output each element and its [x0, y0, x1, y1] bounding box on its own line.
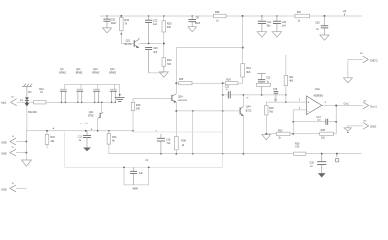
svg-text:R18: R18	[269, 107, 274, 110]
wire gate chain	[65, 83, 120, 85]
node junction	[242, 47, 244, 49]
svg-text:Out 1: Out 1	[370, 104, 377, 108]
svg-text:Q12: Q12	[93, 68, 98, 71]
svg-text:4k99: 4k99	[132, 188, 138, 191]
resistor R40	[256, 83, 270, 94]
ground	[188, 27, 197, 32]
svg-text:B79C: B79C	[88, 116, 94, 118]
svg-text:R33: R33	[50, 136, 55, 139]
svg-text:BF862: BF862	[109, 73, 116, 75]
resistor R33b	[45, 131, 55, 149]
svg-text:R32: R32	[124, 19, 129, 22]
wire base bus	[176, 110, 240, 112]
capacitor C25	[315, 15, 328, 35]
ground	[257, 32, 266, 37]
svg-text:C25: C25	[315, 21, 320, 24]
svg-text:Q24: Q24	[178, 95, 183, 98]
capacitor C22	[145, 16, 158, 44]
ground	[159, 72, 168, 77]
ground	[320, 35, 329, 40]
svg-text:GND: GND	[1, 189, 7, 192]
svg-text:R34: R34	[112, 136, 117, 139]
resistor R46	[131, 98, 141, 131]
transistor Q41	[88, 101, 103, 130]
op-amp U1A	[299, 87, 327, 115]
svg-text:Q41: Q41	[89, 111, 94, 114]
svg-text:R35: R35	[179, 79, 184, 81]
node A	[53, 127, 55, 130]
capacitor C16	[155, 130, 171, 154]
capacitor C15	[273, 16, 287, 31]
svg-text:+: +	[307, 101, 309, 105]
wire feedback upper	[292, 121, 337, 123]
capacitor C18	[273, 89, 278, 102]
svg-text:C23: C23	[225, 86, 230, 88]
svg-text:Q44: Q44	[246, 106, 251, 109]
svg-text:R33: R33	[167, 22, 172, 25]
svg-text:C33: C33	[266, 78, 271, 80]
connector Inp1	[1, 97, 17, 106]
wire bottom bus A	[26, 130, 133, 132]
transistor Q13	[109, 68, 116, 103]
wire	[17, 100, 34, 102]
ground	[272, 32, 281, 37]
resistor R11	[284, 55, 294, 103]
svg-text:R39: R39	[226, 79, 231, 81]
resistor R32	[120, 15, 130, 43]
svg-text:R46: R46	[136, 104, 141, 107]
svg-text:BF861: BF861	[59, 73, 66, 75]
connector GND 16	[1, 183, 27, 192]
wire top supply rail	[100, 15, 362, 17]
ground	[21, 160, 31, 166]
power flag +9	[343, 9, 347, 16]
svg-text:U1A: U1A	[315, 87, 320, 91]
svg-text:240: 240	[136, 108, 141, 111]
transistor Q4	[59, 68, 66, 103]
label 4k99	[132, 188, 138, 191]
svg-text:C18: C18	[273, 89, 278, 91]
svg-text:3k3: 3k3	[246, 71, 251, 74]
connector GND output	[348, 121, 376, 130]
resistor R30	[294, 142, 306, 155]
component T1	[336, 154, 339, 162]
svg-text:7k5: 7k5	[167, 63, 172, 66]
capacitor C31	[103, 16, 116, 28]
connector GND 15	[1, 147, 27, 156]
wire	[335, 106, 337, 134]
svg-text:Q21: Q21	[126, 39, 131, 42]
node B	[91, 129, 93, 131]
transistor Q44	[240, 97, 252, 116]
svg-text:R26: R26	[215, 11, 220, 14]
wire output	[322, 103, 363, 107]
svg-text:R27: R27	[297, 11, 302, 14]
svg-text:C12: C12	[78, 137, 83, 139]
svg-text:1uF: 1uF	[139, 173, 144, 175]
resistor R39	[225, 79, 238, 84]
ground	[344, 126, 351, 133]
resistor R35	[179, 79, 192, 85]
capacitor C14	[258, 16, 272, 31]
svg-text:56pF: 56pF	[195, 23, 201, 25]
svg-text:C13: C13	[316, 117, 321, 119]
wire noninverting input	[266, 101, 306, 103]
resistor R31	[241, 64, 252, 83]
transistor Q24	[168, 94, 188, 103]
wire node riser	[192, 111, 194, 155]
svg-text:C20: C20	[153, 47, 158, 50]
resistor R34	[162, 58, 172, 72]
connector Out 1	[363, 100, 377, 109]
shield outline	[65, 132, 223, 168]
wire	[242, 95, 244, 107]
svg-text:3n3: 3n3	[153, 51, 158, 54]
svg-text:R21: R21	[39, 88, 44, 91]
capacitor C23	[225, 86, 230, 98]
ground	[115, 84, 125, 101]
wire jfet bus	[46, 101, 116, 103]
wire collector bus	[176, 47, 242, 49]
transistor Q21	[121, 38, 161, 48]
label c2 marks	[81, 123, 89, 125]
wire feedback lower	[293, 133, 336, 135]
svg-text:2SB737A: 2SB737A	[178, 99, 188, 102]
node +9 junction	[242, 15, 244, 17]
svg-text:−: −	[308, 109, 310, 113]
wire upper rail	[176, 82, 242, 84]
resistor R26	[214, 11, 227, 22]
svg-text:R23: R23	[278, 130, 283, 133]
svg-text:BAV199: BAV199	[28, 111, 37, 114]
chassis symbol	[22, 84, 32, 87]
ground	[318, 173, 326, 177]
svg-text:Q13: Q13	[110, 68, 115, 71]
capacitor C13	[316, 117, 327, 125]
ground	[343, 78, 352, 83]
wire ground stem	[25, 131, 27, 160]
diode D1	[25, 87, 37, 131]
svg-text:C16: C16	[166, 138, 171, 141]
svg-text:R25: R25	[321, 129, 326, 132]
svg-text:GND: GND	[370, 125, 376, 129]
svg-text:Inp1: Inp1	[1, 101, 7, 105]
svg-text:C26: C26	[309, 162, 314, 165]
svg-text:GND: GND	[1, 142, 7, 145]
svg-text:GND 2: GND 2	[370, 58, 378, 62]
svg-text:1n4: 1n4	[282, 25, 287, 28]
svg-text:7uF: 7uF	[167, 143, 172, 145]
wire mid rail	[222, 94, 287, 96]
resistor R21	[34, 88, 46, 104]
capacitor C12	[78, 131, 91, 148]
resistor R36	[107, 131, 117, 154]
wire collector Q24	[175, 48, 177, 94]
wire	[149, 72, 164, 74]
wire bottom bus B	[109, 153, 362, 155]
svg-text:B72C: B72C	[246, 110, 252, 112]
resistor R25	[320, 129, 334, 140]
svg-text:56u: 56u	[267, 25, 272, 28]
svg-text:+9: +9	[343, 9, 347, 13]
svg-text:R31: R31	[246, 67, 251, 70]
transistor Q12	[93, 68, 100, 103]
wire	[242, 116, 244, 155]
transistor Q11	[76, 68, 83, 103]
svg-text:7k5: 7k5	[269, 110, 274, 113]
resistor R38	[174, 137, 186, 155]
resistor R27	[295, 11, 310, 23]
ground	[262, 135, 271, 140]
wire emitter Q24	[175, 82, 177, 136]
ground	[83, 148, 91, 152]
wire base Q24	[133, 97, 168, 99]
node inverting input	[292, 110, 306, 135]
capacitor C17	[130, 167, 143, 185]
svg-text:GND: GND	[1, 153, 7, 156]
svg-text:R11: R11	[289, 76, 294, 79]
wire	[242, 16, 244, 64]
svg-text:BF862: BF862	[76, 73, 83, 75]
connector GND 14	[1, 136, 27, 145]
vertical wire node	[222, 83, 224, 154]
svg-text:1u2: 1u2	[153, 23, 158, 26]
svg-text:R38: R38	[181, 139, 186, 142]
svg-text:AD8065: AD8065	[313, 94, 323, 98]
capacitor C33	[257, 74, 271, 84]
svg-text:R30: R30	[295, 142, 300, 145]
capacitor C26	[309, 154, 326, 173]
ground	[103, 28, 112, 33]
resistor R33	[162, 15, 172, 57]
svg-text:10uF: 10uF	[111, 22, 117, 25]
resistor R23	[266, 130, 293, 140]
resistor R18	[265, 102, 275, 135]
svg-text:C14: C14	[267, 21, 272, 24]
wire	[347, 60, 349, 78]
svg-text:R34: R34	[167, 59, 172, 62]
capacitor C20	[145, 47, 158, 73]
svg-text:Q11: Q11	[76, 68, 81, 71]
svg-text:Out1: Out1	[344, 103, 350, 106]
connector GND 2	[348, 53, 378, 63]
svg-text:C31: C31	[111, 17, 116, 21]
capacitor C9	[189, 16, 201, 26]
svg-text:BF862: BF862	[93, 73, 100, 75]
component Z1 loop	[123, 160, 150, 185]
svg-text:4k3: 4k3	[289, 80, 294, 83]
svg-text:C15: C15	[282, 21, 287, 24]
